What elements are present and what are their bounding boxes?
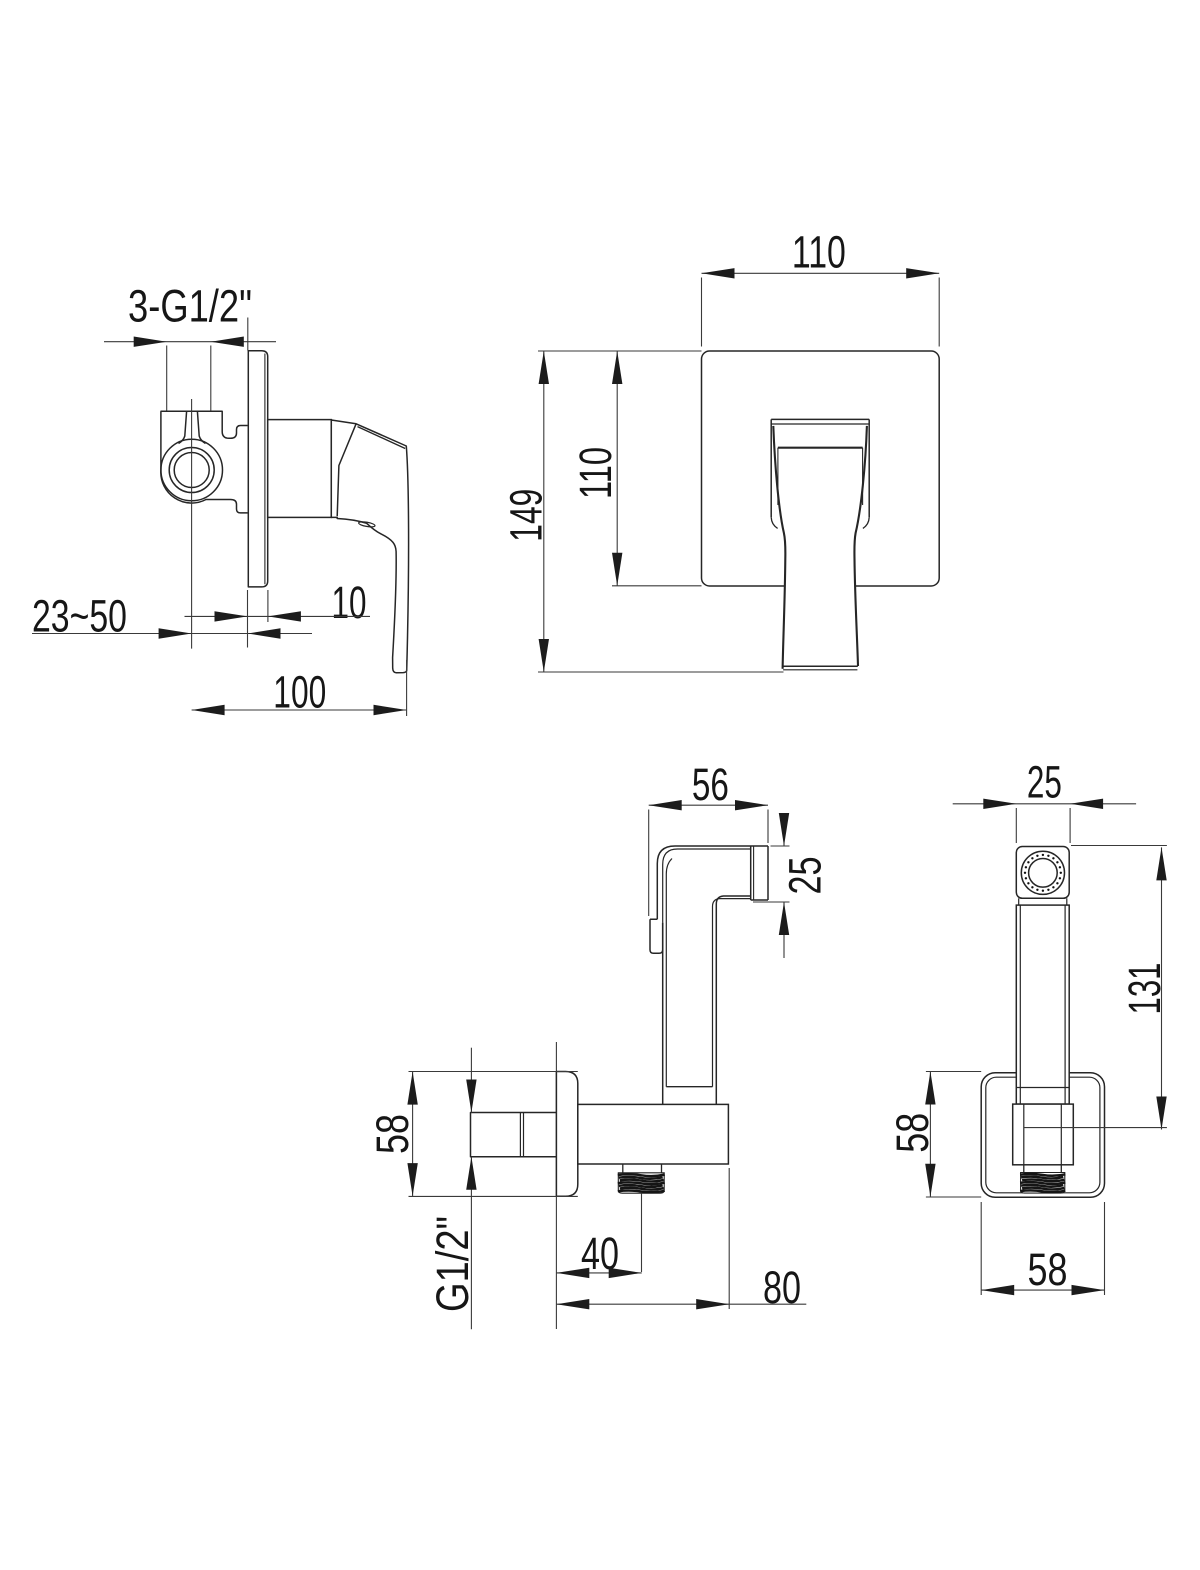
extension line plate4 bottom (926, 1196, 981, 1198)
sprayer body outer left (662, 923, 664, 1104)
svg-text:80: 80 (763, 1262, 801, 1313)
handle cone front edge (337, 424, 356, 516)
holder body (578, 1104, 729, 1164)
spout cover sides (771, 424, 869, 528)
sprayer handle front (1016, 905, 1069, 1104)
wall line (555, 1042, 557, 1329)
extension line plate4 right (1104, 1202, 1106, 1295)
svg-text:110: 110 (570, 447, 621, 499)
valve inlet boss circle (161, 439, 223, 501)
dimension 25 arm text (780, 857, 831, 895)
extension line sprayer right (767, 810, 769, 844)
extension line plate left (701, 278, 703, 347)
svg-text:110: 110 (792, 227, 846, 278)
dimension line 40 (556, 1268, 641, 1278)
lever handle (331, 420, 408, 673)
head neck (1019, 898, 1067, 905)
extension line arm bottom (753, 901, 790, 903)
sprayer body inner left (666, 859, 672, 1087)
sprayer head front (1016, 847, 1069, 899)
handle top ridge line (358, 427, 406, 449)
extension line handle end (406, 660, 408, 716)
extension line inlet right (210, 346, 212, 411)
valve centerline (191, 399, 193, 649)
spout cover inner edge (778, 448, 863, 505)
dimension 25 head text (1027, 756, 1062, 807)
dimension line 58 bottom (981, 1285, 1104, 1295)
svg-text:25: 25 (780, 857, 831, 895)
dimension line 100 (192, 705, 407, 715)
dimension line 149 (539, 351, 549, 672)
dimension line 56 (649, 800, 768, 810)
holder plate front inner (986, 1077, 1100, 1193)
valve body (161, 411, 248, 513)
extension line plate4 top (926, 1071, 981, 1073)
extension line plate front (267, 590, 269, 622)
svg-text:58: 58 (367, 1114, 418, 1154)
dimension line 10 (185, 611, 371, 621)
extension line head top (1071, 845, 1167, 847)
extension line sprayer left (648, 810, 650, 917)
sprayer head inner edge (663, 849, 751, 923)
extension line fig2 plate bottom (612, 585, 702, 587)
handle set screw (358, 521, 375, 528)
extension line plate4 left (980, 1202, 982, 1295)
outlet thread side (618, 1164, 665, 1193)
dimension line G1/2 (466, 1048, 476, 1330)
svg-text:10: 10 (332, 577, 367, 628)
dimension line 25 arm (779, 813, 789, 958)
dimension 80 text (763, 1262, 801, 1313)
extension line head left (1015, 808, 1017, 843)
sprayer nozzle box (650, 919, 663, 953)
dimension 10 text (332, 577, 367, 628)
dimension 100 text (273, 667, 326, 718)
inlet port outer circle (169, 448, 214, 493)
extension line head right (1069, 808, 1071, 843)
sprayer body inner right (713, 899, 751, 1087)
spout left taper curve (773, 426, 785, 669)
extension line outlet center (1024, 1127, 1167, 1129)
holder plate front outer (981, 1073, 1104, 1198)
hose connector (751, 846, 768, 900)
dimension line 110 top (702, 268, 940, 278)
spray nozzle holes (1024, 854, 1062, 892)
dimension 23~50 text (32, 591, 127, 642)
dimension line 131 (1156, 847, 1166, 1129)
svg-text:G1/2": G1/2" (427, 1216, 478, 1312)
dimension 58 text fig3 (367, 1114, 418, 1154)
sprayer head outer edge (657, 846, 768, 919)
mixer plate front (702, 351, 940, 586)
dimension line 110 vertical (612, 351, 622, 586)
dimension 56 text (692, 759, 729, 810)
coupling nut front (1013, 1104, 1074, 1165)
holder wall plate side (556, 1072, 577, 1197)
dimension 110 text top (792, 227, 846, 278)
dimension line 23~50 (32, 628, 312, 638)
dimension G1/2 text (427, 1216, 478, 1312)
dimension line 80 (556, 1299, 806, 1309)
extension line holder plate top (409, 1071, 578, 1073)
svg-text:56: 56 (692, 759, 729, 810)
svg-text:131: 131 (1119, 963, 1170, 1015)
wall plate side view (248, 351, 267, 587)
extension line plate right (938, 278, 940, 347)
spray face outer circle (1021, 851, 1064, 894)
svg-text:58: 58 (1028, 1244, 1068, 1295)
extension line arm top (771, 845, 790, 847)
dimension 40 text (581, 1228, 619, 1279)
extension line wall face (247, 590, 249, 648)
dimension 149 text (501, 489, 552, 542)
sprayer handle end cap line (666, 1086, 712, 1088)
dimension 58 left text fig4 (887, 1113, 938, 1153)
outlet thread front (1020, 1165, 1065, 1193)
spout right taper curve (854, 426, 866, 666)
inlet port inner circle (174, 453, 209, 488)
dimension 131 text (1119, 963, 1170, 1015)
dimension label 3-G1/2" (128, 281, 252, 332)
dimension line 58 fig3 (407, 1072, 417, 1197)
cartridge housing (268, 420, 332, 518)
extension line plate top (247, 318, 249, 351)
extension line holder right end (728, 1168, 730, 1309)
extension line inlet left (166, 346, 168, 411)
sprayer arm bottom edge (716, 896, 750, 1104)
spout bottom tip (783, 666, 858, 670)
svg-text:3-G1/2": 3-G1/2" (128, 281, 252, 332)
valve stem (179, 411, 206, 443)
dimension 58 bottom text (1028, 1244, 1068, 1295)
extension line fig2 spout bottom (538, 671, 784, 673)
inlet stub G1/2 (471, 1113, 557, 1157)
spout cover top cap (771, 419, 869, 424)
extension line fig2 top (538, 350, 702, 352)
extension line holder plate bottom (409, 1195, 578, 1197)
dimension line 3-G1/2" (104, 337, 276, 347)
dimension line 25 head (953, 799, 1136, 809)
spray face inner circle (1029, 859, 1058, 888)
svg-text:25: 25 (1027, 756, 1062, 807)
dimension line 58 left fig4 (925, 1072, 935, 1197)
outlet centerline (641, 1193, 643, 1272)
spout neck (783, 533, 858, 669)
dimension 110 text vertical (570, 447, 621, 499)
